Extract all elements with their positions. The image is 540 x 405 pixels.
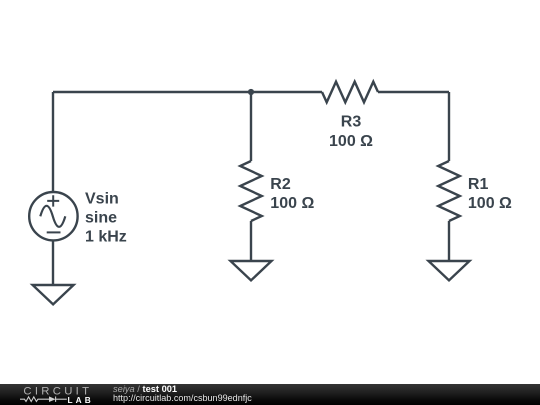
resistor R2 zigzag	[240, 161, 262, 221]
wire: source bottom lead	[52, 240, 54, 285]
ground symbol at R1	[429, 261, 470, 280]
wire: R2 top lead from junction	[250, 92, 252, 161]
resistor R1 zigzag	[438, 161, 460, 221]
resistor R3 zigzag	[322, 82, 378, 103]
svg-text:100 Ω: 100 Ω	[329, 133, 373, 150]
svg-text:sine: sine	[85, 210, 117, 227]
voltage source V1 plus sign	[47, 195, 59, 206]
svg-text:R3: R3	[341, 114, 362, 131]
voltage source V1 body circle	[29, 192, 77, 240]
svg-text:LAB: LAB	[68, 395, 94, 405]
wire: R1 bottom lead	[448, 221, 450, 261]
wire: R3 right terminal to R1 top corner	[378, 91, 449, 93]
svg-text:Vsin: Vsin	[85, 190, 119, 207]
ground symbol at R2	[231, 261, 272, 280]
svg-text:100 Ω: 100 Ω	[468, 195, 512, 212]
wire: R2 bottom lead	[250, 221, 252, 261]
svg-text:100 Ω: 100 Ω	[270, 195, 314, 212]
wire: top net, source top to R3 left terminal	[53, 91, 322, 93]
voltage source V1 sine wave symbol	[40, 206, 65, 227]
voltage source V1 minus sign	[47, 231, 61, 233]
svg-text:R2: R2	[270, 176, 291, 193]
wire: source top lead	[52, 92, 54, 192]
junction node dot at R2 top	[248, 89, 254, 95]
svg-text:1 kHz: 1 kHz	[85, 228, 127, 245]
CircuitLab logo	[0, 384, 110, 405]
footer bar	[0, 384, 540, 405]
ground symbol at source	[33, 285, 74, 304]
wire: R1 top lead	[448, 92, 450, 161]
svg-text:R1: R1	[468, 176, 489, 193]
